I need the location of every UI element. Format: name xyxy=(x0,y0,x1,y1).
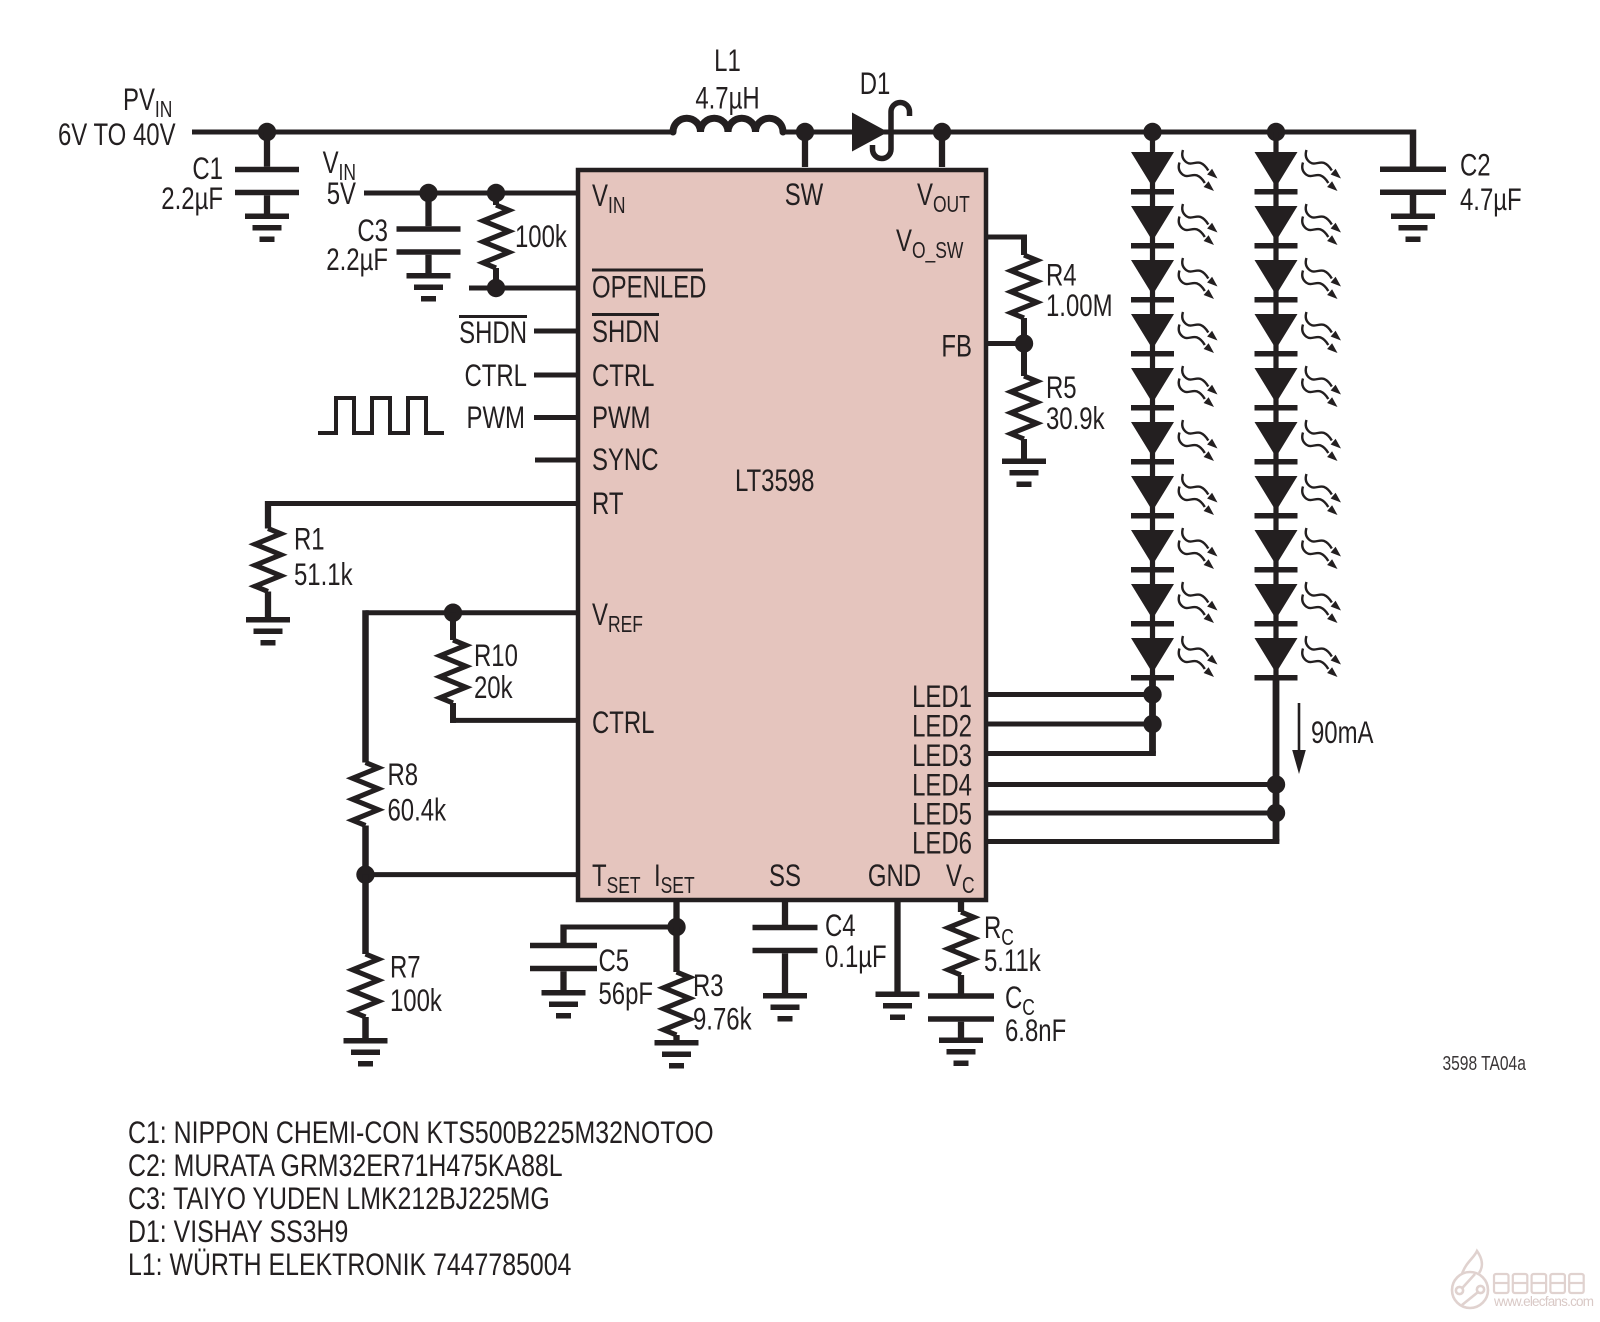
wire R1 bottom lead xyxy=(265,592,271,619)
LED string1 #9 xyxy=(1131,582,1218,627)
ground C2 xyxy=(1391,214,1435,243)
wire C3 top lead xyxy=(425,193,431,226)
junction FB xyxy=(1015,334,1033,352)
svg-text:C4: C4 xyxy=(825,908,856,943)
wire C4 bottom lead xyxy=(782,953,788,994)
ground C4 xyxy=(763,993,807,1022)
wire 100k bottom lead xyxy=(493,268,499,288)
ground C1 xyxy=(245,214,289,243)
svg-text:R3: R3 xyxy=(693,968,724,1003)
resistor RC xyxy=(948,912,974,975)
svg-text:R7: R7 xyxy=(390,949,421,984)
wire ISET to C5 xyxy=(564,925,677,930)
svg-text:SYNC: SYNC xyxy=(592,442,659,477)
wire SHDN stub xyxy=(534,329,578,334)
wire VO_SW xyxy=(986,235,1024,240)
junction 5V / C3 xyxy=(419,184,437,202)
junction PVIN / C1 xyxy=(258,123,276,141)
svg-text:PWM: PWM xyxy=(592,400,650,435)
watermark CJK text xyxy=(1494,1274,1584,1293)
wire VIN 5V to IC xyxy=(364,191,578,196)
capacitor C5 xyxy=(530,943,597,972)
svg-text:2.2µF: 2.2µF xyxy=(161,181,223,216)
wire VREF corner down to R8 xyxy=(362,610,369,762)
junction 5V / 100k xyxy=(487,184,505,202)
wire LED string1 bottom xyxy=(1149,678,1156,754)
svg-text:R5: R5 xyxy=(1046,370,1077,405)
wire rail from L1 through D1 to C2 xyxy=(783,130,1413,135)
LED string1 #4 xyxy=(1131,312,1218,357)
wire C5 top lead xyxy=(560,925,566,944)
junction SW xyxy=(796,123,814,141)
wire RT xyxy=(268,501,578,506)
svg-text:C2: MURATA GRM32ER71H475KA88L: C2: MURATA GRM32ER71H475KA88L xyxy=(128,1148,563,1184)
capacitor C2 xyxy=(1380,167,1446,196)
svg-text:LED6: LED6 xyxy=(912,825,972,860)
ground C3 xyxy=(407,273,451,302)
junction rail / LED string 2 xyxy=(1267,123,1285,141)
wire C2 bottom lead xyxy=(1410,195,1417,215)
LED string1 #5 xyxy=(1131,366,1218,411)
IC U1 LT3598 body xyxy=(578,170,986,900)
wire VC stub xyxy=(958,900,964,912)
junction VREF / R10 xyxy=(444,604,462,622)
svg-text:CTRL: CTRL xyxy=(592,705,655,740)
svg-text:4.7µH: 4.7µH xyxy=(695,80,759,115)
LED string1 #2 xyxy=(1131,204,1218,249)
svg-text:OPENLED: OPENLED xyxy=(592,269,706,304)
wire R8 to TSET node xyxy=(362,826,369,875)
LED string2 #6 xyxy=(1255,420,1342,465)
wire PVIN rail left segment xyxy=(192,130,673,135)
junction LED1 xyxy=(1143,685,1161,703)
resistor R1 xyxy=(255,529,281,592)
wire C5 bottom lead xyxy=(560,971,566,991)
wire R4 to FB node xyxy=(1021,318,1027,344)
junction OPENLED / 100k xyxy=(487,279,505,297)
overline SHDN external xyxy=(459,315,527,318)
wire LED3 return xyxy=(986,751,1156,756)
wire VREF xyxy=(366,610,579,615)
resistor 100k pullup xyxy=(483,205,509,268)
LED string2 #7 xyxy=(1255,474,1342,519)
wire R3 bottom lead xyxy=(673,1035,679,1041)
svg-text:5V: 5V xyxy=(327,176,357,211)
svg-text:L1: L1 xyxy=(714,43,741,78)
junction LED5 xyxy=(1267,804,1285,822)
capacitor C1 xyxy=(235,167,299,196)
wire GND stub xyxy=(894,900,900,993)
svg-text:R10: R10 xyxy=(474,638,518,673)
LED string2 #5 xyxy=(1255,366,1342,411)
junction TSET / R7 xyxy=(356,865,374,883)
svg-text:L1: WÜRTH ELEKTRONIK 744778500: L1: WÜRTH ELEKTRONIK 7447785004 xyxy=(128,1247,571,1283)
resistor R8 xyxy=(353,763,379,826)
wire OPENLED xyxy=(469,286,578,291)
svg-text:PWM: PWM xyxy=(467,400,525,435)
wire R10 bottom lead xyxy=(450,703,456,723)
wire VO_SW corner to R4 xyxy=(1021,235,1027,256)
wire SW stub xyxy=(802,132,808,167)
svg-text:2.2µF: 2.2µF xyxy=(326,242,388,277)
svg-text:SHDN: SHDN xyxy=(459,315,527,350)
svg-text:3598 TA04a: 3598 TA04a xyxy=(1443,1052,1527,1075)
wire SS stub xyxy=(782,900,788,925)
wire LED5 xyxy=(986,811,1276,816)
ground C5 xyxy=(542,990,586,1019)
svg-text:6V TO 40V: 6V TO 40V xyxy=(58,117,176,152)
resistor R5 xyxy=(1011,376,1037,439)
junction LED4 xyxy=(1267,775,1285,793)
svg-text:D1: VISHAY SS3H9: D1: VISHAY SS3H9 xyxy=(128,1214,348,1250)
svg-text:0.1µF: 0.1µF xyxy=(825,939,887,974)
svg-text:56pF: 56pF xyxy=(599,976,654,1011)
svg-text:SW: SW xyxy=(785,177,824,212)
watermark elecfans logo xyxy=(1452,1251,1488,1308)
wire LED1 xyxy=(986,692,1153,697)
diode D1 xyxy=(852,103,910,159)
capacitor CC xyxy=(928,993,994,1022)
svg-text:C1: NIPPON CHEMI-CON KTS500B22: C1: NIPPON CHEMI-CON KTS500B225M32NOTOO xyxy=(128,1115,714,1151)
junction VOUT xyxy=(933,123,951,141)
svg-text:4.7µF: 4.7µF xyxy=(1460,182,1522,217)
svg-text:90mA: 90mA xyxy=(1311,715,1374,750)
svg-text:www.elecfans.com: www.elecfans.com xyxy=(1493,1294,1594,1309)
svg-text:C2: C2 xyxy=(1460,147,1491,182)
wire C1 top lead xyxy=(264,132,270,167)
PWM square wave icon xyxy=(318,398,444,433)
inductor L1 xyxy=(673,118,783,132)
junction rail / LED string 1 xyxy=(1143,123,1161,141)
wire VOUT stub xyxy=(939,132,945,167)
LED string1 #8 xyxy=(1131,528,1218,573)
wire 100k top lead xyxy=(493,193,499,205)
wire TSET xyxy=(366,872,579,877)
svg-text:D1: D1 xyxy=(860,66,891,101)
wire LED string2 stem xyxy=(1273,132,1278,680)
svg-text:5.11k: 5.11k xyxy=(984,943,1042,978)
LED string1 #3 xyxy=(1131,258,1218,303)
LED string2 #9 xyxy=(1255,582,1342,627)
svg-text:R8: R8 xyxy=(388,757,419,792)
ground CC xyxy=(939,1038,983,1067)
wire LED2 xyxy=(986,722,1153,727)
wire SYNC stub xyxy=(535,458,578,463)
overline SHDN pin xyxy=(592,313,659,316)
svg-text:20k: 20k xyxy=(474,670,513,705)
ground R7 xyxy=(344,1038,388,1067)
svg-text:CTRL: CTRL xyxy=(464,358,527,393)
svg-text:GND: GND xyxy=(868,858,921,893)
LED string2 #2 xyxy=(1255,204,1342,249)
svg-text:R1: R1 xyxy=(294,521,325,556)
LED string1 #1 xyxy=(1131,150,1218,195)
wire R7 bottom lead xyxy=(362,1017,369,1039)
ground GND pin xyxy=(876,992,920,1021)
wire LED6 return xyxy=(986,839,1279,844)
wire R7 top lead xyxy=(362,875,369,954)
svg-text:C3: TAIYO YUDEN LMK212BJ225MG: C3: TAIYO YUDEN LMK212BJ225MG xyxy=(128,1181,550,1217)
LED string2 #1 xyxy=(1255,150,1342,195)
LED string2 #4 xyxy=(1255,312,1342,357)
wire R3 top lead xyxy=(673,927,679,972)
capacitor C3 xyxy=(397,226,461,255)
svg-text:100k: 100k xyxy=(390,983,443,1018)
overline OPENLED pin xyxy=(592,269,703,272)
wire ISET stub xyxy=(673,900,679,927)
wire C3 bottom lead xyxy=(425,255,431,274)
wire R10 top lead xyxy=(450,613,456,640)
wire R5 top lead xyxy=(1021,344,1027,377)
svg-text:SHDN: SHDN xyxy=(592,314,660,349)
svg-text:1.00M: 1.00M xyxy=(1046,288,1113,323)
LED string1 #10 xyxy=(1131,636,1218,681)
svg-text:9.76k: 9.76k xyxy=(693,1001,752,1036)
wire FB xyxy=(986,341,1024,346)
wire C1 bottom lead xyxy=(264,195,270,214)
current arrow 90mA xyxy=(1298,703,1301,756)
svg-text:LT3598: LT3598 xyxy=(735,463,814,498)
junction LED2 xyxy=(1143,715,1161,733)
svg-text:FB: FB xyxy=(941,328,972,363)
svg-text:C5: C5 xyxy=(599,943,630,978)
svg-text:51.1k: 51.1k xyxy=(294,557,353,592)
resistor R7 xyxy=(353,954,379,1017)
junction ISET xyxy=(667,918,685,936)
svg-text:RT: RT xyxy=(592,486,623,521)
resistor R3 xyxy=(664,972,690,1035)
wire CTRL stub xyxy=(534,373,578,378)
wire RC to CC xyxy=(958,975,964,994)
LED string2 #10 xyxy=(1255,636,1342,681)
ground R5 xyxy=(1002,459,1046,488)
svg-text:100k: 100k xyxy=(515,219,568,254)
LED string2 #8 xyxy=(1255,528,1342,573)
wire CTRL2 pin xyxy=(450,718,578,723)
svg-text:30.9k: 30.9k xyxy=(1046,401,1105,436)
wire LED4 xyxy=(986,782,1276,787)
wire PWM stub xyxy=(534,415,578,420)
svg-text:CTRL: CTRL xyxy=(592,358,655,393)
capacitor C4 xyxy=(753,925,818,954)
svg-text:SS: SS xyxy=(769,858,801,893)
wire RT corner down to R1 xyxy=(265,501,271,529)
wire CC bottom lead xyxy=(958,1022,964,1039)
ground R3 xyxy=(655,1040,699,1069)
resistor R4 xyxy=(1011,255,1037,318)
ground R1 xyxy=(246,617,290,646)
wire C2 top lead xyxy=(1410,130,1417,169)
LED string2 #3 xyxy=(1255,258,1342,303)
LED string1 #7 xyxy=(1131,474,1218,519)
wire LED string1 stem xyxy=(1150,132,1155,680)
LED string1 #6 xyxy=(1131,420,1218,465)
svg-text:6.8nF: 6.8nF xyxy=(1005,1013,1066,1048)
svg-text:60.4k: 60.4k xyxy=(388,792,447,827)
wire LED string2 bottom xyxy=(1273,678,1280,842)
wire R5 bottom lead xyxy=(1021,439,1027,460)
resistor R10 xyxy=(440,640,466,703)
